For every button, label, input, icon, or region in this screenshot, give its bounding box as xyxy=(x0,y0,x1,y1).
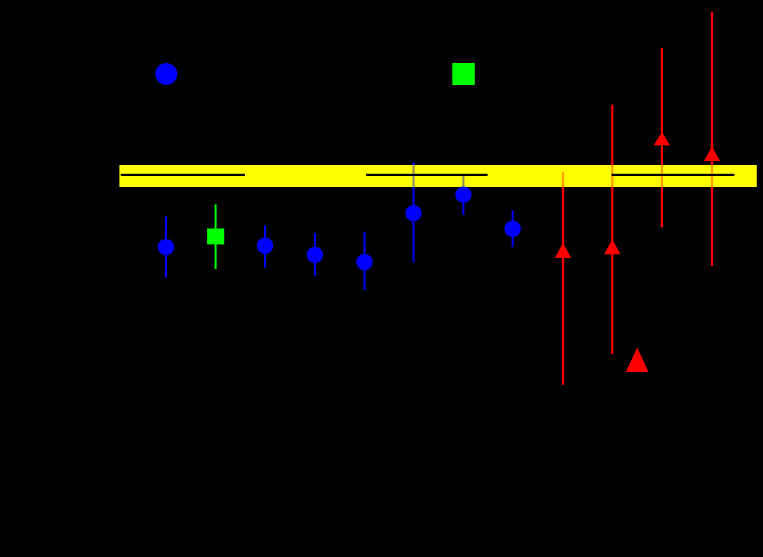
red bar R1 band crossing (blended) xyxy=(562,172,564,187)
theory line L2 xyxy=(366,174,488,176)
red errorbar R4 upper segment xyxy=(711,12,713,165)
red bar R4 band crossing (blended) xyxy=(711,165,713,187)
blue errorbar B4 xyxy=(364,232,366,290)
blue errorbar B3 xyxy=(314,233,316,276)
green errorbar G1 xyxy=(215,204,217,269)
yellow band xyxy=(119,165,756,187)
blue point B3 xyxy=(307,247,323,263)
blue point B6 xyxy=(455,186,471,202)
red caret R2 xyxy=(604,239,620,254)
blue errorbar B5 upper segment xyxy=(413,162,415,165)
red errorbar R2 upper segment xyxy=(611,105,613,165)
legend marker green square xyxy=(452,63,475,85)
blue bar B5 band crossing (blended) xyxy=(413,165,415,187)
red errorbar R3 upper segment xyxy=(661,48,663,165)
blue errorbar B6 lower segment xyxy=(462,187,464,215)
red point R5 triangle xyxy=(626,348,649,373)
blue point B5 xyxy=(405,205,421,221)
red caret R1 xyxy=(555,243,571,258)
blue bar B6 band crossing (blended) xyxy=(462,174,464,187)
blue point B2 xyxy=(257,238,273,254)
red caret R4 xyxy=(704,147,720,162)
green point G1 square xyxy=(207,229,224,245)
blue point B1 xyxy=(158,239,174,255)
theory line L1 xyxy=(121,174,245,176)
blue errorbar B5 lower segment xyxy=(413,187,415,262)
blue errorbar B1 xyxy=(165,217,167,278)
theory line L3 xyxy=(612,174,735,176)
red bar R2 band crossing (blended) xyxy=(611,165,613,187)
blue point B4 xyxy=(356,254,372,270)
legend marker blue circle xyxy=(155,63,177,85)
red errorbar R2 lower segment xyxy=(611,187,613,354)
red errorbar R1 lower segment xyxy=(562,187,564,385)
blue point B7 xyxy=(504,221,520,237)
red caret R3 xyxy=(654,132,670,146)
red bar R3 band crossing (blended) xyxy=(661,165,663,187)
red errorbar R4 lower segment xyxy=(711,187,713,266)
blue errorbar B7 xyxy=(512,211,514,248)
blue errorbar B2 xyxy=(264,226,266,268)
red errorbar R3 lower segment xyxy=(661,187,663,227)
